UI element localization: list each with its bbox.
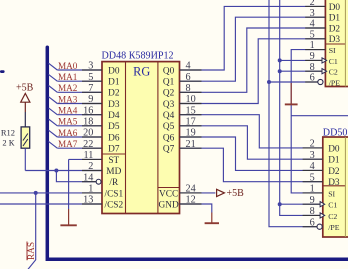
wire VCC pin 24 [180, 192, 216, 194]
svg-text:/CS2: /CS2 [104, 200, 123, 210]
svg-text:D2: D2 [329, 24, 341, 34]
svg-text:Q0: Q0 [163, 66, 175, 76]
svg-text:Q5: Q5 [163, 122, 175, 132]
top chip C1 clock mark [322, 58, 327, 63]
svg-text:D0: D0 [328, 144, 340, 154]
wire SI net: top chip SI down and branch right [291, 50, 325, 193]
svg-text:C1: C1 [328, 201, 337, 210]
wire MA2 to D2 pin [49, 86, 103, 93]
pin stubs (black) main chip right [180, 70, 202, 204]
svg-text:Q6: Q6 [163, 133, 175, 143]
svg-text:C1: C1 [329, 57, 338, 66]
ground (ST) [60, 209, 76, 225]
pin stubs (black) top right chip [305, 6, 325, 82]
svg-text:MA2: MA2 [58, 83, 78, 93]
svg-text:C2: C2 [329, 68, 338, 77]
svg-text:D7: D7 [108, 145, 120, 155]
top chip /PE bubble [318, 79, 323, 84]
wire stub at left edge (cut off) [0, 70, 5, 73]
resistor R12 [21, 127, 30, 148]
top right chip body [325, 0, 348, 87]
ground (/PE net) [285, 83, 298, 104]
top chip C2 clock mark [322, 69, 327, 74]
wire Q3 to top chip D3 [180, 39, 326, 104]
DD50 separator [323, 185, 346, 187]
svg-text:MA4: MA4 [58, 106, 78, 116]
svg-text:D1: D1 [108, 78, 120, 88]
wire MA0 to D0 pin [49, 63, 103, 70]
pin stubs (black) main chip left [82, 70, 102, 204]
junction DD50 C1 [278, 202, 282, 206]
svg-text:/R: /R [109, 178, 119, 188]
wire to /R pin 14 [56, 171, 96, 182]
svg-text:RAS: RAS [27, 242, 37, 260]
svg-text:+5В: +5В [227, 188, 245, 199]
svg-text:MA0: MA0 [58, 61, 78, 71]
wire MA1 to D1 pin [49, 74, 103, 81]
svg-text:D6: D6 [108, 133, 120, 143]
svg-text:/CS1: /CS1 [104, 189, 123, 199]
power +5B (left) arrow [21, 93, 30, 102]
svg-text:Q4: Q4 [163, 111, 175, 121]
pin stubs (black) DD50 [303, 148, 323, 227]
svg-text:+5В: +5В [16, 83, 34, 94]
top chip internal divider [344, 0, 346, 87]
DD50 internal divider [344, 137, 346, 237]
svg-text:MD: MD [106, 167, 121, 177]
wire ST down [68, 159, 70, 209]
svg-text:MA7: MA7 [58, 139, 78, 149]
svg-text:SI: SI [328, 189, 335, 198]
wire /CS2 pin 13 [0, 203, 102, 205]
wire DD50 C1 [280, 203, 322, 205]
svg-text:D3: D3 [108, 100, 120, 110]
svg-text:D1: D1 [328, 156, 340, 166]
wire Q7 to DD50 D3 [180, 148, 323, 182]
DD50 C1 clock mark [320, 202, 325, 207]
inverter bubble /R [96, 179, 101, 184]
svg-text:MA3: MA3 [58, 94, 78, 104]
svg-text:D2: D2 [328, 167, 340, 177]
svg-text:DD48 К589ИР12: DD48 К589ИР12 [102, 51, 174, 62]
svg-text:RG: RG [133, 65, 150, 79]
wire Q4 to DD50 D0 [180, 115, 323, 148]
wire MA5 to D5 pin [49, 119, 103, 126]
svg-text:DD50 К589ИР12: DD50 К589ИР12 [323, 127, 348, 138]
wire to R12 [24, 112, 26, 127]
RAS overline [26, 242, 28, 261]
wire MA6 to D6 pin [49, 130, 103, 137]
svg-text:Q1: Q1 [163, 78, 175, 88]
wire top /PE [269, 81, 318, 83]
DD50 C2 clock mark [320, 213, 325, 218]
wire /CS1 pin 1 (RAS net) [0, 192, 102, 194]
svg-text:MA6: MA6 [58, 128, 78, 138]
svg-text:D0: D0 [108, 66, 120, 76]
junction RAS net [34, 191, 38, 195]
DD50 /PE bubble [317, 224, 322, 229]
junction MD//R net [54, 169, 58, 173]
svg-text:Q2: Q2 [163, 89, 175, 99]
wire Q5 to DD50 D1 [180, 126, 323, 159]
bus MA address (thick) vertical + bottom horizontal [47, 47, 348, 259]
wire GND pin 12 [180, 204, 212, 213]
wire Q1 to top chip D1 [180, 17, 326, 81]
svg-text:MA5: MA5 [58, 117, 78, 127]
svg-text:MA1: MA1 [58, 72, 78, 82]
top chip separator [325, 43, 345, 45]
wire top C1 [280, 59, 322, 61]
svg-text:R12: R12 [1, 128, 15, 138]
svg-text:D2: D2 [108, 89, 120, 99]
svg-text:C2: C2 [328, 212, 337, 221]
wire RAS down to edge [28, 193, 36, 269]
wire MD pin 2 [25, 170, 102, 172]
wire +5B stem [24, 102, 26, 112]
svg-text:D1: D1 [329, 14, 341, 24]
chip DD50 body [323, 137, 348, 237]
svg-text:/PE: /PE [329, 78, 341, 87]
power +5B (right) arrow [217, 189, 225, 196]
svg-text:GND: GND [159, 200, 179, 210]
wire Q6 to DD50 D2 [180, 137, 323, 170]
wire top C2 [280, 70, 322, 72]
junction top C1 [278, 58, 282, 62]
wire R12 to MD net [24, 148, 26, 170]
wire ST pin 11 [69, 158, 102, 160]
svg-text:SI: SI [329, 46, 336, 55]
svg-text:Q7: Q7 [163, 145, 175, 155]
svg-text:D0: D0 [329, 3, 341, 13]
wire Q2 to top chip D2 [180, 28, 326, 92]
svg-text:D5: D5 [108, 122, 120, 132]
svg-text:2 К: 2 К [2, 138, 14, 148]
wire SI branch to right edge [291, 115, 348, 117]
IC DD48 K589IR12 (register RG) body [102, 62, 180, 214]
wire MA3 to D3 pin [49, 97, 103, 104]
svg-text:D3: D3 [328, 178, 340, 188]
svg-text:D3: D3 [329, 35, 341, 45]
svg-text:/PE: /PE [328, 223, 340, 232]
ground (GND) [205, 213, 219, 224]
wire Q0 to top chip D0 [180, 6, 326, 70]
junction top C2 [278, 69, 282, 73]
wire C1/C2 clock net vertical [280, 0, 322, 215]
chip internal dividers [102, 62, 180, 214]
svg-text:VCC: VCC [159, 189, 178, 199]
wire MA4 to D4 pin [49, 108, 103, 115]
wire MA7 to D7 pin [49, 141, 103, 148]
svg-text:D4: D4 [108, 111, 120, 121]
wire /PE net vertical [269, 0, 317, 227]
svg-text:ST: ST [108, 156, 119, 166]
junction top /PE [267, 80, 271, 84]
svg-text:Q3: Q3 [163, 100, 175, 110]
